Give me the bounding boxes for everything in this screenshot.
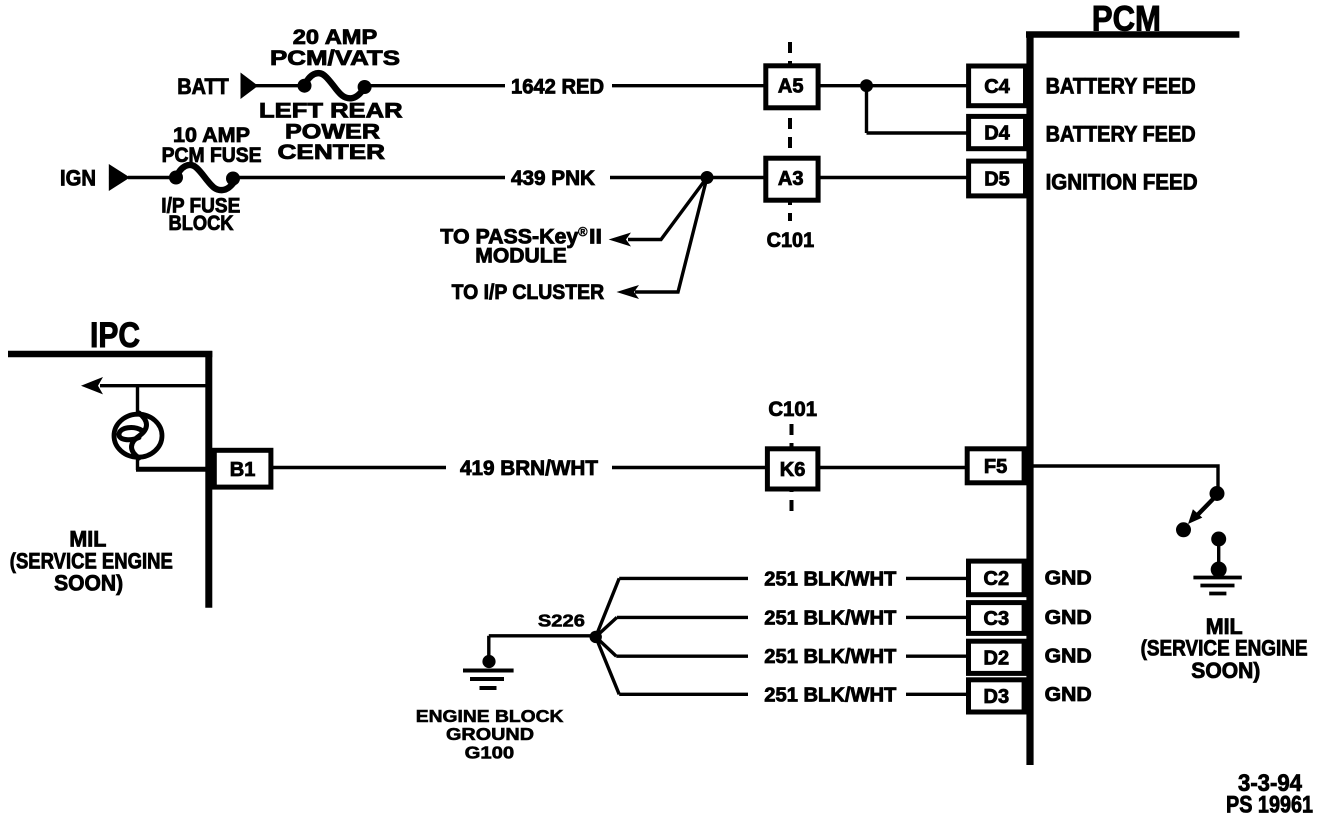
svg-text:SOON): SOON) [54,571,123,596]
svg-text:GND: GND [1045,607,1092,629]
svg-text:D4: D4 [984,123,1010,145]
svg-text:CENTER: CENTER [278,141,386,164]
svg-text:C2: C2 [984,568,1010,590]
svg-text:PCM/VATS: PCM/VATS [270,47,400,70]
svg-text:BATTERY FEED: BATTERY FEED [1046,74,1196,99]
svg-text:IPC: IPC [90,316,140,355]
svg-text:S226: S226 [538,611,585,631]
svg-text:C4: C4 [984,76,1010,98]
svg-text:B1: B1 [230,459,256,481]
svg-text:251 BLK/WHT: 251 BLK/WHT [764,608,896,630]
svg-text:20 AMP: 20 AMP [293,26,378,49]
svg-text:II: II [589,226,602,249]
svg-text:®: ® [578,224,588,239]
svg-text:251 BLK/WHT: 251 BLK/WHT [764,646,896,668]
svg-text:GND: GND [1045,568,1092,590]
svg-text:D5: D5 [984,169,1010,191]
svg-text:SOON): SOON) [1191,658,1260,683]
svg-text:(SERVICE ENGINE: (SERVICE ENGINE [1141,636,1308,661]
svg-text:251 BLK/WHT: 251 BLK/WHT [764,569,896,591]
svg-text:1642 RED: 1642 RED [511,76,604,99]
svg-text:GND: GND [1045,646,1092,668]
svg-text:BATT: BATT [177,74,229,99]
svg-text:G100: G100 [465,743,515,763]
svg-text:BLOCK: BLOCK [169,212,234,235]
svg-text:F5: F5 [984,456,1007,478]
svg-text:TO I/P CLUSTER: TO I/P CLUSTER [452,281,604,304]
svg-text:ENGINE BLOCK: ENGINE BLOCK [416,706,564,726]
svg-text:PCM: PCM [1092,0,1161,38]
svg-text:PS 19961: PS 19961 [1226,792,1313,818]
svg-text:A3: A3 [778,168,804,190]
svg-text:IGNITION FEED: IGNITION FEED [1046,170,1198,195]
svg-text:PCM FUSE: PCM FUSE [162,144,262,167]
svg-text:IGN: IGN [60,166,96,191]
svg-text:K6: K6 [780,459,806,481]
svg-text:251 BLK/WHT: 251 BLK/WHT [764,685,896,707]
svg-text:D3: D3 [984,686,1010,708]
svg-text:439 PNK: 439 PNK [511,167,595,190]
svg-text:GND: GND [1045,684,1092,706]
svg-text:D2: D2 [984,648,1010,670]
svg-text:419 BRN/WHT: 419 BRN/WHT [460,457,598,480]
svg-text:C3: C3 [984,608,1010,630]
svg-text:GROUND: GROUND [446,724,534,744]
svg-text:C101: C101 [768,398,817,421]
svg-text:MODULE: MODULE [475,245,567,268]
svg-text:C101: C101 [767,229,815,252]
svg-text:LEFT REAR: LEFT REAR [259,100,403,123]
svg-text:A5: A5 [778,76,804,98]
svg-text:BATTERY FEED: BATTERY FEED [1046,121,1196,146]
